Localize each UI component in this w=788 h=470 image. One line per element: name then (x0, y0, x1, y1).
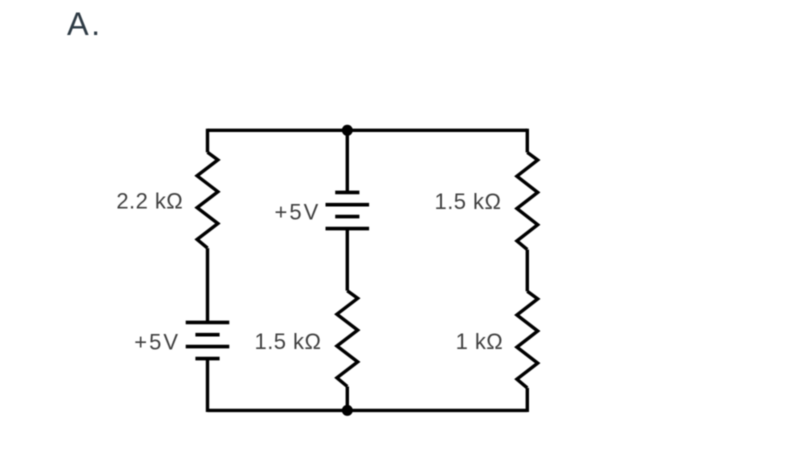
svg-text:+5V: +5V (275, 200, 321, 225)
wire top rail (208, 129, 528, 132)
resistor R2 1.5 kOhm (middle) (337, 291, 358, 387)
wire right branch bottom lead (526, 388, 529, 412)
svg-text:1.5 kΩ: 1.5 kΩ (255, 329, 322, 354)
wire left branch top lead (206, 129, 209, 153)
svg-text:+5V: +5V (134, 330, 180, 355)
wire bottom rail (208, 409, 528, 412)
svg-text:A.: A. (67, 6, 103, 42)
resistor R1 2.2 kOhm (197, 152, 218, 248)
svg-text:1 kΩ: 1 kΩ (456, 329, 504, 354)
wire right branch middle (526, 250, 529, 292)
wire middle branch bottom lead (346, 387, 349, 411)
wire right branch top lead (526, 129, 529, 153)
node junction dot top (342, 125, 353, 136)
resistor R4 1 kOhm (right bottom) (517, 291, 538, 388)
svg-text:1.5 kΩ: 1.5 kΩ (435, 189, 502, 214)
wire middle branch middle (346, 229, 349, 291)
wire middle branch top lead (346, 130, 349, 192)
wire left branch bottom lead (206, 359, 209, 412)
battery V2 +5V (middle) (326, 192, 370, 228)
svg-text:2.2 kΩ: 2.2 kΩ (116, 189, 183, 214)
battery V1 +5V (left) (186, 322, 230, 358)
node junction dot bottom (342, 405, 353, 416)
wire left branch middle (206, 248, 209, 322)
resistor R3 1.5 kOhm (right top) (517, 152, 538, 249)
